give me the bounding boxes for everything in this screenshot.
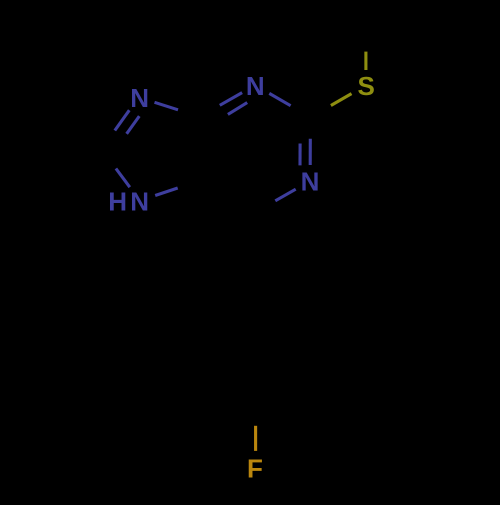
svg-text:H: H xyxy=(108,187,127,217)
bond N1-C2 (blue half) xyxy=(269,93,290,105)
bond C8-N9 (blue half) xyxy=(116,169,130,188)
svg-text:N: N xyxy=(301,167,320,197)
bond N7=C8 main line (blue half) xyxy=(115,110,130,130)
bond N1=C4a inner line (blue half) xyxy=(228,103,247,115)
bond N1=C4a main line (blue half) xyxy=(220,93,242,106)
svg-text:F: F xyxy=(247,453,263,483)
svg-text:N: N xyxy=(246,71,265,101)
svg-text:N: N xyxy=(130,187,149,217)
bond S-C2 (sulfur half) xyxy=(331,94,352,106)
bond S-CH3 (sulfur half) xyxy=(364,52,367,70)
bond F-C4' (fluorine half) xyxy=(254,426,257,451)
svg-text:S: S xyxy=(358,71,375,101)
bond N7=C8 inner line (blue half) xyxy=(127,116,140,134)
svg-text:N: N xyxy=(130,83,149,113)
bond C2=N3 main line (blue half) xyxy=(309,139,312,165)
bond N7-C4a (blue half) xyxy=(155,102,179,110)
bond N3-C6 (blue half) xyxy=(275,189,295,201)
bond C2=N3 inner line (blue half) xyxy=(298,144,301,166)
bond N9-C5 (blue half) xyxy=(155,188,178,196)
